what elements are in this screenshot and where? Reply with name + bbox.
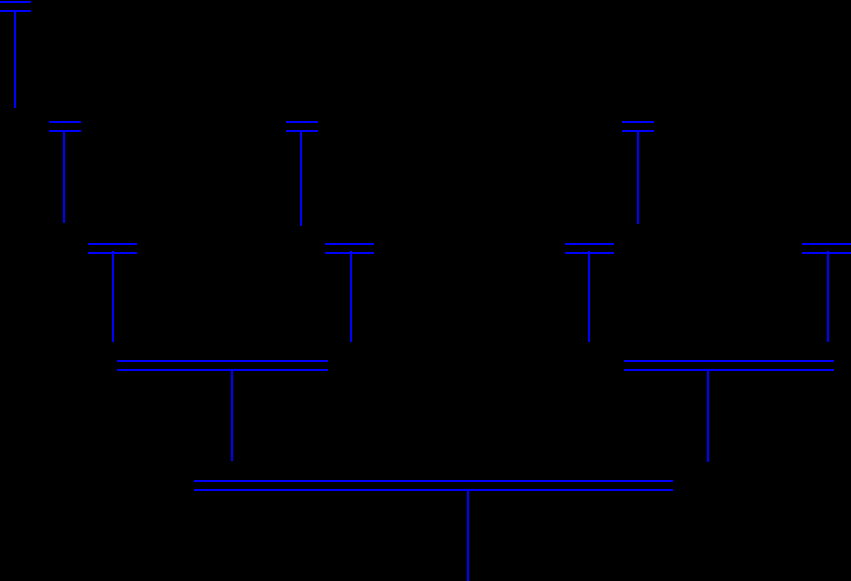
capacitor C10 (wide, right) bbox=[624, 360, 834, 362]
wire from C1 bottom plate bbox=[14, 10, 16, 108]
capacitor C4 bbox=[622, 121, 654, 123]
wire from C8 bottom plate bbox=[827, 251, 829, 342]
wire from C11 bottom plate to bottom edge bbox=[467, 489, 469, 581]
capacitor C3 bbox=[286, 121, 318, 123]
wire from C7 bottom plate bbox=[588, 251, 590, 342]
capacitor C9 (wide, left) bbox=[117, 360, 328, 362]
capacitor C11 (widest, bottom) bbox=[194, 480, 673, 482]
wire from C3 bottom plate bbox=[300, 130, 302, 226]
capacitor C2 bbox=[49, 121, 81, 123]
capacitor C8 (clipped by right edge) bbox=[802, 243, 851, 245]
wire from C5 bottom plate bbox=[112, 251, 114, 342]
capacitor C6 bbox=[325, 243, 374, 245]
wire from C6 bottom plate bbox=[350, 251, 352, 342]
wire from C9 bottom plate bbox=[231, 369, 233, 461]
wire from C2 bottom plate bbox=[63, 130, 65, 223]
wire from C10 bottom plate bbox=[707, 369, 709, 462]
capacitor C5 bbox=[88, 243, 137, 245]
wire from C4 bottom plate bbox=[637, 130, 639, 224]
capacitor C1 (top-left, clipped by left edge) bbox=[0, 1, 31, 3]
capacitor C7 bbox=[565, 243, 614, 245]
